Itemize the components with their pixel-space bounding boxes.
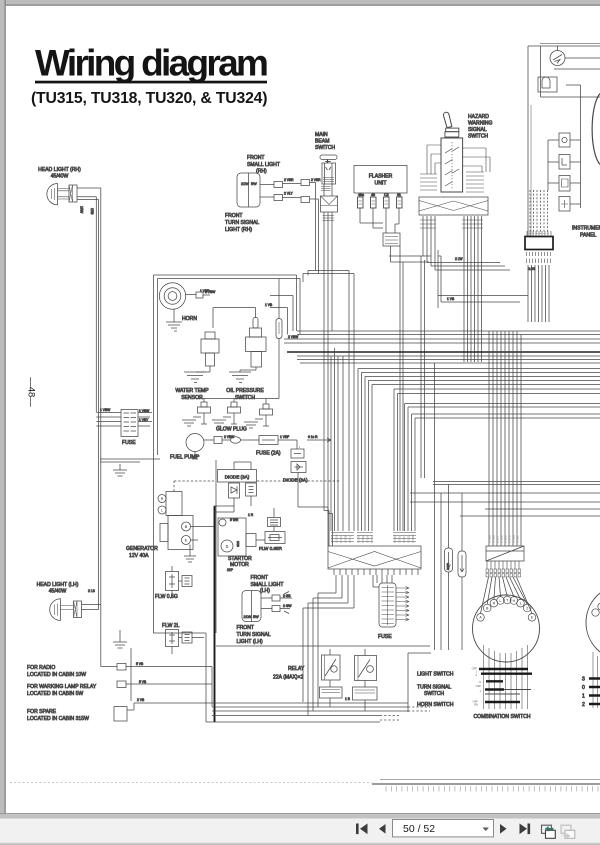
svg-text:1RB: 1RB	[90, 208, 94, 215]
svg-text:GENERATOR: GENERATOR	[126, 546, 158, 552]
svg-text:R: R	[161, 497, 164, 501]
svg-text:FLW 0.85R: FLW 0.85R	[259, 546, 283, 551]
svg-text:2: 2	[526, 606, 528, 610]
svg-text:WATER TEMP: WATER TEMP	[175, 388, 209, 394]
svg-text:0.5G: 0.5G	[528, 267, 536, 271]
svg-text:HEAD LIGHT (RH): HEAD LIGHT (RH)	[38, 167, 81, 173]
svg-text:FLW 0.5G: FLW 0.5G	[155, 594, 178, 600]
svg-text:0.5YL: 0.5YL	[348, 535, 352, 543]
svg-text:LOCATED IN CABIN 5W: LOCATED IN CABIN 5W	[27, 691, 83, 697]
svg-text:HORN SWITCH: HORN SWITCH	[417, 702, 454, 708]
svg-text:T: T	[506, 598, 508, 602]
svg-text:21W: 21W	[244, 615, 252, 619]
svg-text:INSTRUMENT: INSTRUMENT	[572, 226, 600, 232]
svg-text:0.5RG: 0.5RG	[330, 535, 334, 543]
svg-text:FUSE: FUSE	[378, 634, 392, 640]
svg-text:SMALL LIGHT: SMALL LIGHT	[247, 162, 280, 168]
svg-text:(RH): (RH)	[256, 169, 267, 175]
svg-text:1 B: 1 B	[345, 697, 351, 701]
svg-text:0.5RY: 0.5RY	[370, 535, 374, 543]
svg-text:1 VBF: 1 VBF	[280, 435, 289, 439]
svg-text:SIGNAL: SIGNAL	[468, 127, 487, 133]
svg-text:0.5WR: 0.5WR	[411, 534, 415, 543]
svg-text:FLW 2L: FLW 2L	[162, 623, 180, 629]
svg-text:0.5BW: 0.5BW	[393, 534, 397, 543]
svg-text:HORN: HORN	[182, 316, 197, 322]
svg-text:DIODE (3A): DIODE (3A)	[283, 478, 308, 483]
svg-text:ON: ON	[474, 703, 478, 707]
svg-text:FRONT: FRONT	[247, 155, 265, 161]
svg-text:1 VBY: 1 VBY	[139, 418, 149, 422]
svg-text:2 LB: 2 LB	[88, 589, 96, 593]
svg-text:5 WR: 5 WR	[230, 518, 239, 522]
svg-text:2 GW: 2 GW	[283, 604, 292, 608]
svg-text:FUSE: FUSE	[122, 440, 136, 446]
svg-text:0.5LW: 0.5LW	[366, 535, 370, 543]
svg-text:49a: 49a	[358, 193, 364, 197]
svg-text:49: 49	[371, 193, 375, 197]
svg-text:5 VB: 5 VB	[136, 662, 144, 666]
svg-text:TURN SIGNAL: TURN SIGNAL	[225, 220, 259, 226]
svg-text:LIGHT SWITCH: LIGHT SWITCH	[417, 672, 454, 678]
svg-text:OIL PRESSURE: OIL PRESSURE	[226, 388, 264, 394]
svg-text:1 VBW: 1 VBW	[139, 409, 150, 413]
svg-text:0 1s R: 0 1s R	[308, 435, 318, 439]
svg-text:SENSOR: SENSOR	[181, 395, 203, 401]
svg-text:3: 3	[582, 677, 585, 683]
svg-text:FLASHER: FLASHER	[369, 174, 393, 180]
svg-text:C2: C2	[384, 193, 389, 197]
svg-text:(LH): (LH)	[260, 588, 270, 594]
svg-text:2 LW: 2 LW	[455, 257, 463, 261]
svg-text:1 R: 1 R	[248, 513, 254, 517]
svg-text:5W: 5W	[253, 615, 259, 619]
svg-text:45/40W: 45/40W	[49, 589, 67, 595]
svg-text:HEAD LIGHT (LH): HEAD LIGHT (LH)	[37, 582, 79, 588]
svg-text:PANEL: PANEL	[580, 233, 596, 239]
svg-text:2 GB: 2 GB	[283, 594, 291, 598]
svg-text:SWITCH: SWITCH	[424, 691, 444, 697]
svg-text:—48—: —48—	[26, 377, 37, 407]
svg-text:BEAM: BEAM	[315, 139, 329, 145]
svg-text:1: 1	[582, 694, 585, 700]
svg-text:5W: 5W	[251, 182, 257, 186]
svg-text:FRONT: FRONT	[225, 213, 243, 219]
svg-text:WARNING: WARNING	[468, 121, 492, 127]
svg-text:21P: 21P	[227, 568, 234, 572]
svg-text:1 VBW: 1 VBW	[100, 408, 111, 412]
svg-text:0.5GW: 0.5GW	[335, 534, 339, 543]
svg-text:0.5LB: 0.5LB	[407, 536, 411, 543]
svg-text:2 VBR: 2 VBR	[284, 178, 294, 182]
svg-text:Wiring diagram: Wiring diagram	[35, 43, 267, 84]
svg-text:0.5LR: 0.5LR	[339, 536, 343, 543]
svg-text:FUSE (2A): FUSE (2A)	[256, 451, 281, 457]
svg-text:0.5WB: 0.5WB	[357, 534, 361, 543]
svg-text:MAIN: MAIN	[315, 132, 328, 138]
svg-text:LOCATED IN CABIN 315W: LOCATED IN CABIN 315W	[27, 716, 89, 722]
svg-text:S: S	[225, 544, 228, 549]
svg-text:LOCATED IN CABIN 10W: LOCATED IN CABIN 10W	[27, 672, 86, 678]
svg-text:RELAY: RELAY	[288, 666, 305, 672]
svg-text:1 VBF: 1 VBF	[200, 289, 209, 293]
svg-text:LIGHT (LH): LIGHT (LH)	[237, 639, 264, 645]
svg-text:1 VB: 1 VB	[265, 303, 273, 307]
svg-text:TURN SIGNAL: TURN SIGNAL	[417, 685, 451, 691]
svg-text:0.5GR: 0.5GR	[361, 535, 365, 543]
svg-text:1RB: 1RB	[236, 541, 240, 547]
svg-text:FRONT: FRONT	[251, 575, 269, 581]
svg-text:SWITCH: SWITCH	[315, 145, 335, 151]
svg-text:21W: 21W	[241, 182, 249, 186]
svg-text:FOR RADIO: FOR RADIO	[27, 665, 55, 671]
svg-text:2 VBW: 2 VBW	[224, 435, 235, 439]
svg-text:LIGHT (RH): LIGHT (RH)	[225, 227, 252, 233]
svg-text:1: 1	[520, 602, 522, 606]
svg-text:(TU315, TU318, TU320, & TU324): (TU315, TU318, TU320, & TU324)	[31, 90, 267, 107]
svg-text:0.5W: 0.5W	[446, 563, 450, 570]
svg-text:FUEL PUMP: FUEL PUMP	[170, 455, 200, 461]
svg-text:SWITCH: SWITCH	[468, 134, 488, 140]
svg-text:B: B	[185, 524, 188, 529]
svg-text:UNIT: UNIT	[375, 181, 387, 187]
svg-text:12V 40A: 12V 40A	[129, 553, 149, 559]
svg-text:FOR SPARE: FOR SPARE	[27, 709, 57, 715]
svg-text:HAZARD: HAZARD	[468, 114, 489, 120]
svg-text:1 VB: 1 VB	[447, 297, 455, 301]
svg-text:50 / 52: 50 / 52	[403, 823, 435, 835]
svg-text:COMBINATION SWITCH: COMBINATION SWITCH	[474, 714, 531, 720]
svg-text:5 VB: 5 VB	[139, 680, 147, 684]
svg-text:H: H	[479, 680, 481, 684]
svg-text:22A (MAX)×2: 22A (MAX)×2	[273, 675, 304, 681]
svg-text:2: 2	[582, 702, 585, 708]
svg-text:2 VLY: 2 VLY	[284, 192, 294, 196]
svg-text:OFF: OFF	[476, 684, 482, 688]
svg-text:31: 31	[397, 193, 401, 197]
svg-text:0.5RB: 0.5RB	[344, 535, 348, 543]
svg-text:FRONT: FRONT	[237, 625, 255, 631]
svg-text:DIODE (3A): DIODE (3A)	[225, 475, 250, 480]
svg-text:E: E	[185, 538, 188, 543]
svg-text:2 VBR: 2 VBR	[311, 178, 321, 182]
svg-text:2 VBW: 2 VBW	[288, 335, 299, 339]
svg-text:2 VB: 2 VB	[137, 698, 145, 702]
svg-text:45/40W: 45/40W	[51, 174, 69, 180]
svg-text:0.5GL: 0.5GL	[516, 535, 520, 543]
svg-text:GLOW PLUG: GLOW PLUG	[216, 427, 247, 433]
svg-text:L: L	[500, 599, 502, 603]
svg-text:0: 0	[582, 685, 585, 691]
svg-text:1RW: 1RW	[80, 206, 84, 214]
svg-text:L: L	[161, 509, 163, 513]
svg-text:0.5RL: 0.5RL	[398, 535, 402, 543]
svg-text:0.5GY: 0.5GY	[402, 535, 406, 543]
svg-text:FOR WARKING LAMP RELAY: FOR WARKING LAMP RELAY	[27, 684, 97, 690]
svg-text:TURN SIGNAL: TURN SIGNAL	[237, 632, 271, 638]
svg-text:SWITCH: SWITCH	[235, 395, 255, 401]
